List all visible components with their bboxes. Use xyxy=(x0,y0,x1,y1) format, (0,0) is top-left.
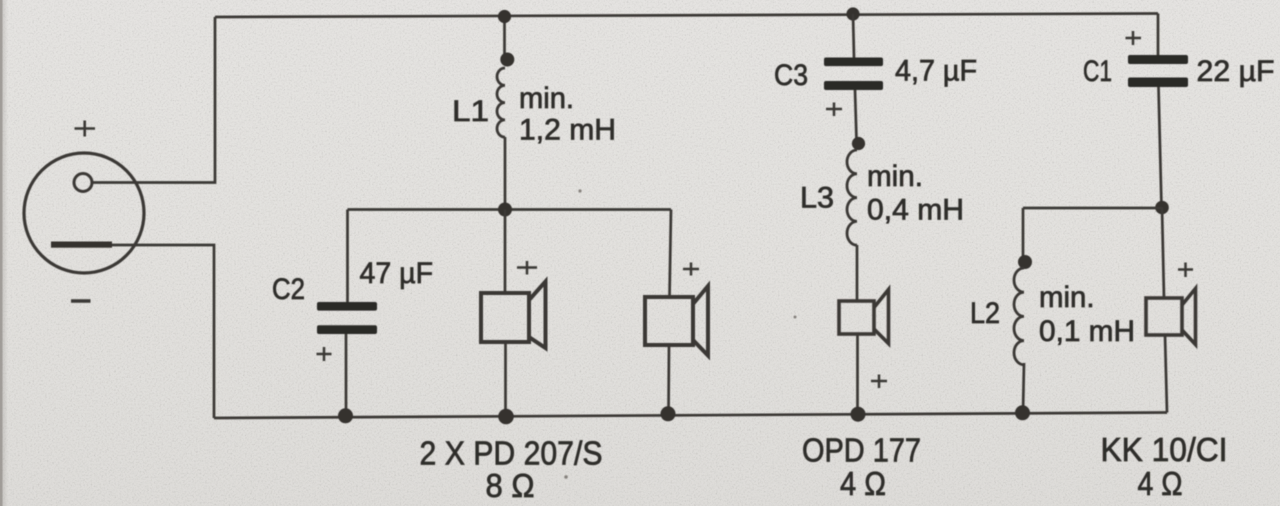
signal source plus terminal xyxy=(74,174,92,192)
wire mid rail xyxy=(348,208,672,211)
junction dot bottom rail / LS1 xyxy=(498,409,514,425)
junction dot bottom rail / LS3 xyxy=(851,407,866,422)
junction dot top rail / C3 xyxy=(846,7,859,20)
wire speaker LS2 to bottom rail xyxy=(667,345,670,414)
wire speaker LS3 to bottom rail xyxy=(856,334,859,415)
wire top rail to C3 xyxy=(853,14,854,58)
wire from plus terminal to top-left corner xyxy=(92,17,215,183)
wire top rail corner down to C1 xyxy=(1157,14,1160,56)
label + of source xyxy=(75,121,96,137)
scan speck near L1 value xyxy=(578,189,581,192)
capacitor C1 plate top xyxy=(1128,55,1188,64)
inductor L3 winding start dot xyxy=(852,137,865,150)
label - of source xyxy=(71,299,91,303)
junction dot bottom rail / C2 xyxy=(338,408,353,423)
wire C3 to L3 xyxy=(855,90,857,140)
wire node A to speaker LS4 xyxy=(1162,208,1164,299)
wire L3 to speaker LS3 xyxy=(856,245,859,301)
svg-text:4 Ω: 4 Ω xyxy=(1138,466,1183,503)
svg-text:OPD 177: OPD 177 xyxy=(802,433,921,470)
svg-text:47 µF: 47 µF xyxy=(360,257,434,290)
inductor L1 xyxy=(497,68,505,137)
speaker LS1 polarity plus xyxy=(517,261,537,275)
speaker LS4 polarity plus xyxy=(1178,263,1193,278)
speaker LS2 frame xyxy=(645,297,693,345)
wire speaker LS1 to bottom rail xyxy=(504,342,507,417)
junction dot node A xyxy=(1155,201,1169,215)
speaker LS4 cone xyxy=(1182,289,1196,345)
svg-text:8 Ω: 8 Ω xyxy=(486,468,535,505)
C2 polarity plus xyxy=(317,347,332,361)
junction dot bottom rail / L2 xyxy=(1015,405,1030,420)
signal source minus terminal bar xyxy=(51,242,112,248)
speaker LS2 polarity plus xyxy=(683,263,699,276)
wire C2 to bottom rail xyxy=(345,334,348,416)
svg-text:min.: min. xyxy=(867,160,923,193)
capacitor C3 plate top xyxy=(824,58,883,67)
svg-text:C1: C1 xyxy=(1083,55,1112,88)
wire mid rail corner down to speaker LS2 xyxy=(670,210,672,298)
speaker LS3 frame xyxy=(839,301,874,334)
svg-text:C2: C2 xyxy=(272,273,305,306)
C3 polarity plus xyxy=(826,103,842,117)
speaker LS3 polarity plus xyxy=(871,375,887,389)
capacitor C1 plate bottom xyxy=(1128,78,1188,88)
speaker LS3 cone xyxy=(874,290,889,344)
wire L2 branch top xyxy=(1023,207,1162,210)
svg-text:L3: L3 xyxy=(800,182,834,215)
wire mid rail to speaker LS1 xyxy=(504,210,507,294)
svg-text:L1: L1 xyxy=(452,95,489,128)
scan speck between LS2 and LS3 xyxy=(794,316,797,319)
inductor L2 xyxy=(1014,268,1024,365)
svg-text:4 Ω: 4 Ω xyxy=(840,466,886,503)
wire L2 branch down to coil xyxy=(1022,208,1025,256)
svg-text:1,2 mH: 1,2 mH xyxy=(519,114,616,147)
svg-text:4,7 µF: 4,7 µF xyxy=(895,55,977,88)
junction dot bottom rail / LS2 xyxy=(661,406,676,421)
wire mid rail corner down to C2 xyxy=(346,210,349,303)
inductor L1 winding start dot xyxy=(500,53,514,67)
svg-text:min.: min. xyxy=(519,82,574,115)
capacitor C2 plate bottom xyxy=(317,325,377,334)
svg-text:min.: min. xyxy=(1039,281,1095,314)
wire L1 to mid rail xyxy=(504,137,507,210)
inductor L3 xyxy=(847,150,857,245)
wire top rail xyxy=(215,14,1158,18)
svg-text:0,4 mH: 0,4 mH xyxy=(867,194,964,227)
speaker LS1 frame xyxy=(481,293,529,342)
svg-text:2 X PD 207/S: 2 X PD 207/S xyxy=(420,436,603,473)
svg-text:KK 10/CI: KK 10/CI xyxy=(1101,432,1228,469)
wire bottom rail xyxy=(214,413,1167,419)
wire L2 to bottom rail xyxy=(1023,363,1024,413)
svg-text:C3: C3 xyxy=(774,59,808,92)
scan speck right of 8 ohm xyxy=(564,475,567,478)
C1 polarity plus xyxy=(1126,31,1142,45)
speaker LS1 cone xyxy=(529,282,546,349)
junction dot top rail / L1 xyxy=(498,10,511,23)
signal source body circle xyxy=(24,153,144,273)
inductor L2 winding start dot xyxy=(1018,255,1032,269)
speaker LS2 cone xyxy=(693,286,708,356)
wire C1 to node A xyxy=(1159,87,1162,208)
speaker LS4 frame xyxy=(1146,298,1182,335)
svg-text:L2: L2 xyxy=(970,297,1000,330)
svg-text:22 µF: 22 µF xyxy=(1197,55,1275,88)
svg-text:0,1 mH: 0,1 mH xyxy=(1039,315,1135,348)
wire top rail to L1 xyxy=(503,17,506,55)
junction dot mid rail / L1 / LS1 xyxy=(498,203,512,217)
capacitor C2 plate top xyxy=(317,302,377,311)
capacitor C3 plate bottom xyxy=(824,81,883,90)
wire from minus terminal to bottom-left corner xyxy=(112,245,214,418)
wire speaker LS4 to bottom rail corner xyxy=(1165,335,1167,413)
